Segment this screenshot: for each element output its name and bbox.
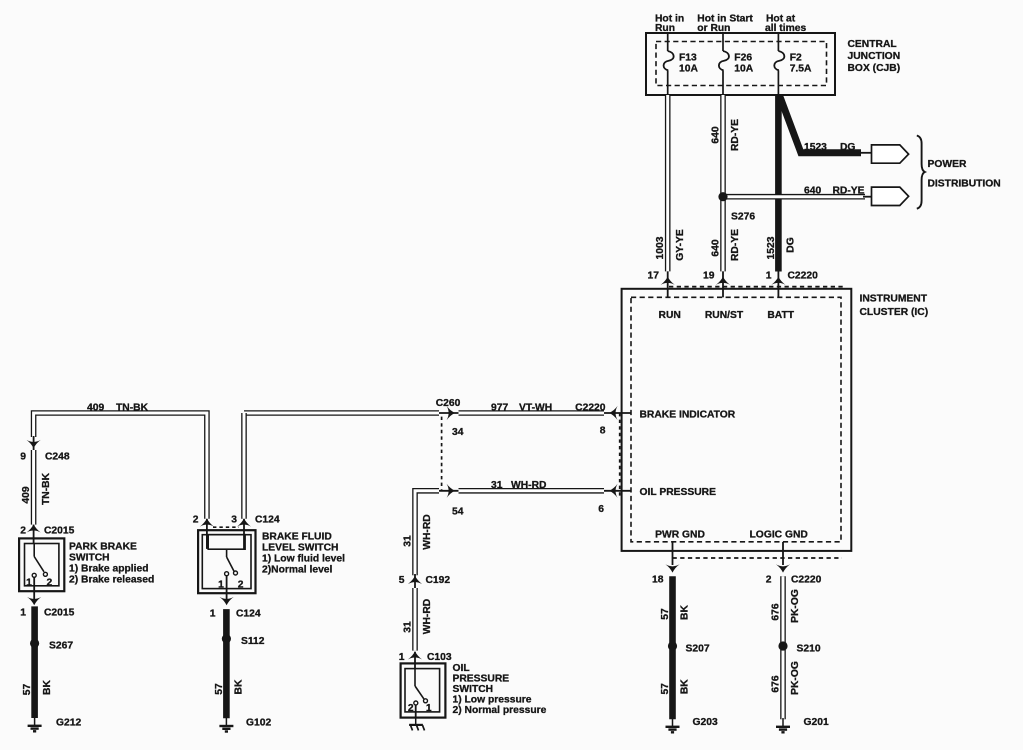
svg-text:2) Normal pressure: 2) Normal pressure	[453, 705, 547, 716]
wire label 57 BK lower (S207)	[660, 679, 691, 695]
svg-text:1: 1	[20, 608, 26, 619]
svg-text:409: 409	[21, 486, 32, 503]
wire label 676 PK-OG lower	[770, 661, 801, 695]
svg-text:10A: 10A	[734, 64, 753, 75]
svg-text:BK: BK	[42, 680, 53, 695]
park brake switch contacts	[32, 544, 47, 578]
svg-text:2: 2	[47, 578, 53, 589]
svg-text:1) Low fluid level: 1) Low fluid level	[262, 554, 345, 565]
brake fluid switch inner box	[202, 535, 251, 589]
svg-text:S210: S210	[797, 644, 821, 655]
oil pressure bottom lead	[415, 705, 417, 718]
pin 2 stub into switch	[33, 525, 35, 544]
svg-text:BOX (CJB): BOX (CJB)	[848, 63, 901, 74]
svg-text:PWR GND: PWR GND	[655, 530, 705, 541]
wire label 57 BK (S112)	[214, 679, 245, 695]
wire 57 BK (brake fluid to G102)	[223, 609, 230, 718]
park brake switch inner box	[25, 544, 59, 586]
oil pressure switch contacts	[414, 669, 428, 705]
svg-text:C124: C124	[236, 609, 261, 620]
svg-text:57: 57	[660, 683, 671, 695]
svg-text:1003: 1003	[655, 236, 666, 259]
connector C2220 dashed line (left side)	[619, 413, 621, 496]
svg-text:676: 676	[770, 603, 781, 620]
park brake bottom lead	[33, 577, 35, 599]
instrument cluster outer box	[622, 289, 852, 551]
park brake switch outer box	[19, 538, 64, 591]
connector arrow C124 pin 1	[220, 597, 234, 605]
svg-text:1) Brake applied: 1) Brake applied	[69, 564, 149, 575]
pin 54 lead	[439, 490, 459, 492]
svg-text:9: 9	[20, 452, 26, 463]
svg-text:LOGIC GND: LOGIC GND	[750, 530, 808, 541]
wire label 409 TN-BK vertical	[21, 472, 52, 505]
wire label 640 RD-YE lower	[710, 229, 741, 261]
svg-text:RD-YE: RD-YE	[730, 119, 741, 151]
connector arrow C124 pin 2	[200, 518, 214, 526]
connector C2220 dashed line (bottom)	[673, 557, 843, 559]
svg-text:C260: C260	[436, 398, 461, 409]
svg-text:409: 409	[87, 403, 104, 414]
pin 8 lead	[604, 412, 631, 414]
svg-text:1: 1	[399, 652, 405, 663]
svg-text:2: 2	[193, 515, 199, 526]
svg-text:RUN: RUN	[659, 310, 681, 321]
power distribution arrow 2 (640 RD-YE)	[872, 187, 909, 205]
splice S267	[30, 639, 39, 648]
svg-text:F26: F26	[734, 53, 752, 64]
svg-text:57: 57	[22, 684, 33, 696]
brace power distribution	[917, 136, 925, 209]
connector arrow pin 18	[665, 564, 679, 572]
svg-text:OIL PRESSURE: OIL PRESSURE	[640, 487, 717, 498]
svg-text:PARK BRAKE: PARK BRAKE	[69, 542, 137, 553]
connector arrow C2015 pin 2	[26, 524, 40, 532]
svg-text:PK-OG: PK-OG	[790, 661, 801, 695]
svg-text:CLUSTER (IC): CLUSTER (IC)	[860, 307, 929, 318]
wire 409 TN-BK (C248 up, across, down to C124 pin 2)	[34, 413, 207, 519]
svg-text:8: 8	[600, 426, 606, 437]
pin 2 stub into switch	[206, 519, 208, 549]
svg-text:2: 2	[408, 703, 414, 714]
svg-text:DG: DG	[840, 142, 855, 153]
svg-text:1: 1	[210, 609, 216, 620]
svg-text:WH-RD: WH-RD	[422, 599, 433, 634]
wire label 31 WH-RD upper segment	[402, 514, 433, 549]
svg-text:640: 640	[710, 126, 721, 143]
central junction box dashed inner	[656, 42, 827, 86]
connector C260 dashed line	[441, 417, 443, 490]
svg-text:S112: S112	[241, 636, 265, 647]
svg-text:F13: F13	[679, 53, 697, 64]
connector arrow C248	[26, 440, 40, 448]
wire label 1523 DG lower	[766, 236, 797, 259]
svg-text:54: 54	[452, 507, 464, 518]
connector arrow pin 17	[661, 277, 675, 285]
svg-text:676: 676	[770, 675, 781, 692]
svg-text:C192: C192	[426, 575, 451, 586]
ground G102	[219, 717, 233, 731]
svg-text:BK: BK	[234, 679, 245, 694]
svg-text:1: 1	[218, 580, 224, 591]
wire label 676 PK-OG upper	[770, 589, 801, 623]
svg-text:2: 2	[20, 526, 26, 537]
wire 640 RD-YE vertical (F26 to IC pin 19)	[720, 95, 726, 271]
connector arrow C124 pin 3	[237, 518, 251, 526]
wire label 1003 GY-YE	[655, 229, 686, 261]
svg-text:INSTRUMENT: INSTRUMENT	[860, 294, 928, 305]
svg-text:5: 5	[399, 575, 405, 586]
svg-text:18: 18	[652, 575, 664, 586]
ground G201	[776, 718, 790, 732]
svg-text:1: 1	[426, 703, 432, 714]
svg-text:57: 57	[660, 608, 671, 620]
svg-text:1: 1	[766, 271, 772, 282]
svg-text:1) Low pressure: 1) Low pressure	[453, 695, 532, 706]
central junction box outer	[646, 33, 835, 95]
wire lead to power arrow 1	[858, 152, 872, 154]
wire 676 PK-OG (pin 2 to G201)	[780, 576, 786, 719]
svg-text:7.5A: 7.5A	[790, 64, 812, 75]
connector C124 dashed line	[213, 526, 239, 528]
svg-text:JUNCTION: JUNCTION	[848, 51, 901, 62]
wire 57 BK (park brake to G212)	[31, 606, 38, 718]
svg-text:BK: BK	[680, 605, 691, 620]
connector arrow pin 1	[771, 277, 785, 285]
svg-text:G201: G201	[804, 717, 829, 728]
svg-text:PRESSURE: PRESSURE	[453, 674, 510, 685]
pin 19 stub	[722, 271, 724, 297]
svg-text:POWER: POWER	[928, 159, 967, 170]
splice S112	[222, 634, 231, 643]
svg-text:TN-BK: TN-BK	[116, 403, 149, 414]
instrument cluster dashed inner box	[631, 297, 841, 542]
svg-text:F2: F2	[790, 53, 802, 64]
pin 6 lead	[604, 490, 631, 492]
svg-text:WH-RD: WH-RD	[422, 514, 433, 549]
connector arrow pin 6	[609, 484, 617, 498]
connector arrow pin 8	[609, 406, 617, 420]
pin 17 stub	[667, 271, 669, 297]
pin 3 stub into switch	[243, 519, 245, 549]
svg-text:3: 3	[231, 515, 237, 526]
svg-text:31: 31	[402, 535, 413, 547]
connector arrow C103	[408, 651, 422, 659]
svg-text:GY-YE: GY-YE	[675, 229, 686, 261]
fuse F13 10A	[664, 33, 674, 95]
svg-text:C2220: C2220	[575, 403, 606, 414]
oil pressure switch inner box	[405, 669, 440, 712]
ground G203	[666, 718, 680, 732]
svg-text:1523: 1523	[766, 236, 777, 259]
oil pressure switch outer box	[401, 663, 446, 717]
ground G212	[28, 717, 42, 731]
svg-text:1: 1	[26, 578, 32, 589]
svg-text:RUN/ST: RUN/ST	[705, 310, 744, 321]
svg-text:BK: BK	[680, 679, 691, 694]
svg-text:10A: 10A	[679, 64, 698, 75]
svg-text:1523: 1523	[804, 142, 827, 153]
wire 977 VT-WH (C124 pin 3 up)	[241, 413, 247, 519]
connector arrow C2015 pin 1	[27, 597, 41, 605]
svg-text:C124: C124	[255, 515, 280, 526]
svg-text:640: 640	[710, 239, 721, 256]
wire label 640 RD-YE above S276	[710, 119, 741, 151]
svg-text:C103: C103	[427, 652, 452, 663]
C103 stub into switch	[414, 652, 416, 669]
svg-text:LEVEL SWITCH: LEVEL SWITCH	[262, 543, 338, 554]
connector arrow C260 pin 54	[447, 484, 455, 498]
svg-text:G102: G102	[246, 718, 271, 729]
fuse F26 10A	[719, 33, 729, 95]
svg-text:31: 31	[402, 621, 413, 633]
pin 18 stub	[672, 542, 674, 565]
pin 2 stub	[782, 542, 784, 565]
splice S210	[778, 641, 787, 650]
wire 409 TN-BK (C248 to park brake switch)	[31, 450, 37, 525]
chassis ground (oil pressure switch)	[409, 718, 424, 731]
svg-text:34: 34	[452, 427, 464, 438]
splice S207	[668, 641, 677, 650]
svg-text:2) Brake released: 2) Brake released	[69, 575, 154, 586]
wire label 31 WH-RD lower segment	[402, 599, 433, 634]
svg-text:TN-BK: TN-BK	[41, 472, 52, 505]
svg-text:S267: S267	[49, 641, 73, 652]
svg-text:S207: S207	[686, 644, 710, 655]
wire label 57 BK upper (S207)	[660, 605, 691, 620]
connector arrow C192	[408, 576, 422, 584]
wire 1523 DG vertical (F2 to IC pin 1)	[775, 95, 782, 272]
svg-text:DG: DG	[786, 237, 797, 252]
connector arrow pin 2 bottom	[776, 564, 790, 572]
wire lead to power arrow 2	[863, 196, 872, 198]
wire 31 WH-RD (C192 up to pin 54 corner)	[415, 491, 439, 576]
brake fluid switch outer box	[198, 530, 255, 593]
svg-text:640: 640	[804, 186, 821, 197]
splice S276	[718, 192, 727, 201]
wire label 57 BK (S267)	[22, 680, 53, 696]
svg-text:CENTRAL: CENTRAL	[848, 39, 897, 50]
wire 977 VT-WH (C260 to IC pin 8)	[459, 410, 605, 416]
brake fluid bottom lead	[226, 576, 228, 599]
svg-text:RD-YE: RD-YE	[833, 186, 865, 197]
wire 640 RD-YE horizontal to power distribution	[723, 194, 865, 200]
svg-text:C2015: C2015	[44, 526, 75, 537]
connector arrow C260 pin 34	[447, 406, 455, 420]
connector C2220 dashed line (top)	[669, 286, 845, 288]
wire 31 WH-RD (C260 to IC pin 6)	[459, 488, 605, 494]
C248 lead	[33, 436, 35, 450]
wire 1523 DG branch to power distribution	[780, 96, 862, 153]
svg-text:DISTRIBUTION: DISTRIBUTION	[928, 178, 1001, 189]
svg-text:S276: S276	[731, 212, 755, 223]
svg-text:SWITCH: SWITCH	[69, 553, 110, 564]
svg-text:C2015: C2015	[44, 608, 75, 619]
svg-text:G212: G212	[56, 718, 81, 729]
svg-text:C2220: C2220	[791, 575, 822, 586]
wire 57 BK (pin 18 to G203)	[669, 576, 676, 719]
pin 34 lead	[439, 412, 459, 414]
fuse F2 7.5A	[774, 33, 784, 95]
svg-text:BRAKE INDICATOR: BRAKE INDICATOR	[640, 410, 736, 421]
svg-text:57: 57	[214, 683, 225, 695]
svg-text:2: 2	[766, 575, 772, 586]
svg-text:2)Normal level: 2)Normal level	[262, 565, 333, 576]
pin 1 stub	[777, 271, 779, 297]
wire 1003 GY-YE (F13 to IC pin 17)	[665, 95, 671, 271]
connector arrow pin 19	[716, 277, 730, 285]
wire 31 WH-RD (C192 to C103)	[412, 588, 418, 651]
svg-text:G203: G203	[693, 717, 718, 728]
svg-text:2: 2	[238, 580, 244, 591]
svg-text:OIL: OIL	[453, 663, 470, 674]
svg-text:C2220: C2220	[788, 271, 819, 282]
power distribution arrow 1 (1523 DG)	[872, 145, 909, 163]
svg-text:BRAKE FLUID: BRAKE FLUID	[262, 532, 332, 543]
svg-text:17: 17	[648, 271, 660, 282]
svg-text:6: 6	[598, 504, 604, 515]
brake fluid switch contacts	[225, 549, 238, 576]
C192 lead	[414, 574, 416, 588]
svg-text:19: 19	[703, 271, 715, 282]
svg-text:SWITCH: SWITCH	[453, 684, 494, 695]
svg-text:RD-YE: RD-YE	[730, 229, 741, 261]
wire 977 VT-WH (C124 to C260)	[244, 410, 439, 416]
brake fluid switch sensor bar	[208, 535, 245, 550]
svg-text:C248: C248	[45, 452, 70, 463]
svg-text:PK-OG: PK-OG	[790, 589, 801, 623]
svg-text:BATT: BATT	[767, 310, 794, 321]
